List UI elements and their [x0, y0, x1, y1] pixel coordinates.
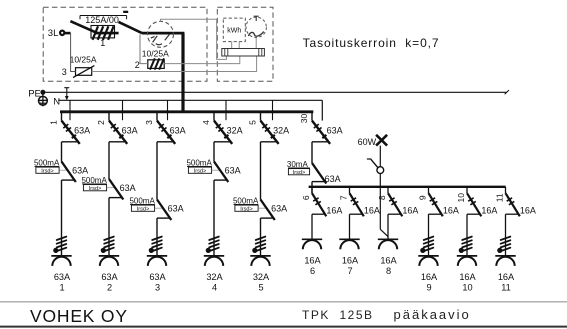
svg-text:8: 8	[386, 266, 391, 276]
wire Q8 output jog	[388, 213, 401, 215]
wire Q3 output jog	[157, 141, 174, 143]
feeder group 5: drop from bus	[260, 112, 262, 121]
RCD F4 Irsd box	[188, 167, 211, 173]
svg-text:5: 5	[247, 120, 257, 125]
switch-fuse Q30 63A	[312, 121, 330, 144]
switch-fuse Q5 32A	[261, 121, 279, 144]
svg-text:63A: 63A	[122, 126, 138, 136]
wire RCD 1 output jog	[62, 179, 75, 181]
wire group 2 down to outlet	[108, 198, 110, 256]
wire Q7 output jog	[350, 213, 363, 215]
svg-text:1: 1	[100, 38, 105, 48]
wire down to RCD 3	[156, 142, 158, 200]
group 7: drop from sub bus	[349, 187, 351, 193]
title block top rule	[0, 301, 567, 303]
feeder group 4: drop from bus	[213, 112, 215, 121]
wire down to RCD 4	[213, 142, 215, 162]
wire group 11 down	[505, 214, 507, 256]
wire main conductor to meter	[142, 32, 185, 35]
switch Q1 second blade	[119, 22, 142, 33]
title block bottom rule	[0, 326, 567, 328]
switch S1 one-pole	[377, 167, 384, 174]
PE junction dot	[41, 90, 45, 94]
svg-text:3L: 3L	[48, 28, 59, 39]
wire switch down crossing sub bus	[379, 174, 381, 230]
svg-text:16A: 16A	[520, 205, 536, 215]
junction dot group 9	[421, 248, 425, 252]
svg-text:Tasoituskerroin k=0,7: Tasoituskerroin k=0,7	[303, 36, 440, 50]
outgoing feeder symbol group 5	[250, 255, 270, 257]
junction dot group 4	[206, 248, 210, 252]
wire down to RCD 5	[260, 142, 262, 200]
RCD F1 Irsd box	[36, 167, 59, 173]
wire down to sub bus	[311, 182, 313, 194]
svg-text:63A: 63A	[271, 204, 287, 214]
P2 top tick	[255, 16, 257, 21]
switch-fuse Q3 63A	[157, 121, 175, 144]
lamp E1	[376, 135, 387, 146]
svg-text:16A: 16A	[459, 272, 476, 282]
svg-text:16A: 16A	[421, 272, 438, 282]
wire Q9 output jog	[429, 213, 442, 215]
RCD F3 Irsd box	[131, 205, 154, 211]
svg-text:16A: 16A	[443, 205, 459, 215]
wire N tap at x=70.0	[69, 100, 71, 120]
P2 wave	[248, 32, 263, 37]
wire Q6 output jog	[312, 213, 325, 215]
conductor count marks group 5	[256, 237, 266, 240]
switch-fuse Q4 32A	[214, 121, 232, 144]
wire Q30 output jog	[312, 141, 329, 143]
terminal block X1	[222, 49, 265, 57]
svg-text:9: 9	[418, 195, 428, 200]
svg-text:7: 7	[347, 266, 352, 276]
wire RCD 30 output jog	[312, 181, 325, 183]
enclosure: meter cubicle (dashed)	[217, 7, 273, 81]
svg-text:3: 3	[144, 120, 154, 125]
breaker Q10 16A	[467, 193, 481, 216]
svg-text:63A: 63A	[327, 126, 343, 136]
svg-text:Irsd>: Irsd>	[41, 168, 54, 174]
wire Q5 output jog	[261, 141, 278, 143]
svg-text:63A: 63A	[325, 174, 341, 184]
svg-text:2: 2	[107, 283, 112, 293]
wire main riser (phase bus feed)	[181, 33, 184, 113]
wire through fuse F1	[95, 32, 119, 35]
wire F2 to meter terminal block	[164, 56, 240, 64]
RCD F5 Irsd box	[235, 205, 258, 211]
receiver P2 ripple control (dashed circle)	[246, 17, 266, 37]
wire group 5 down to outlet	[260, 218, 262, 256]
svg-text:32A: 32A	[227, 126, 243, 136]
svg-text:63A: 63A	[72, 166, 88, 176]
wire tap to F2	[140, 34, 148, 63]
junction dot group 10	[459, 248, 463, 252]
wire RCD 3 output jog	[157, 217, 170, 219]
wire group 10 down	[466, 214, 468, 256]
RCD F30 Irsd box	[288, 169, 309, 175]
wire N tap at x=226.0	[225, 100, 227, 120]
wire incoming stub	[65, 32, 71, 35]
feeder group 2: drop from bus	[108, 112, 110, 121]
junction dot group 3	[149, 248, 153, 252]
wire group 3 down to outlet	[156, 218, 158, 256]
svg-text:32A: 32A	[273, 126, 289, 136]
svg-text:16A: 16A	[380, 256, 397, 266]
svg-text:pääkaavio: pääkaavio	[394, 307, 471, 322]
wire P2 to terminal block	[255, 37, 257, 48]
fuse F1 hatching	[93, 26, 99, 40]
wire F3 to meter terminal block	[92, 56, 257, 72]
svg-text:11: 11	[495, 193, 505, 202]
wire down to RCD 2	[108, 142, 110, 179]
svg-text:30: 30	[299, 114, 309, 124]
svg-text:kWh: kWh	[227, 28, 241, 35]
wire Q4 output jog	[214, 141, 231, 143]
label bracket 125A/00	[80, 15, 127, 17]
outgoing feeder symbol group 4	[204, 255, 224, 257]
feeder 30: bus end corner drop	[311, 112, 313, 121]
conductor count marks group 1	[57, 237, 67, 240]
svg-text:32A: 32A	[253, 272, 270, 282]
svg-text:3: 3	[62, 67, 67, 77]
current transformer T1 (dashed circle)	[148, 21, 174, 47]
enclosure: main switch cubicle (dashed)	[43, 7, 207, 81]
svg-text:32A: 32A	[206, 272, 223, 282]
wire group 6 down	[311, 214, 313, 239]
group 9: drop from sub bus	[428, 187, 430, 193]
junction dot group 11	[498, 248, 502, 252]
svg-text:Irsd>: Irsd>	[293, 170, 306, 176]
wire group 1 down to outlet	[61, 180, 63, 256]
outgoing feeder symbol group 3	[147, 255, 167, 257]
conductor count marks group 11	[501, 237, 511, 240]
wire down to RCD 30	[311, 142, 313, 163]
conductor count marks group 10	[462, 237, 472, 240]
wire N tap at x=272.5	[272, 100, 274, 120]
fuse F2 hatching	[150, 58, 155, 69]
sub distribution bus	[309, 186, 506, 188]
svg-text:63A: 63A	[225, 166, 241, 176]
breaker Q8 16A	[388, 193, 402, 216]
wire tap to F3	[71, 33, 76, 71]
wire group 7 down	[349, 214, 351, 239]
switch-fuse Q2 63A	[109, 121, 127, 144]
svg-text:VOHEK OY: VOHEK OY	[30, 306, 128, 326]
wire lamp to switch	[379, 146, 381, 167]
RCD F2 blade	[109, 179, 123, 200]
svg-text:10/25A: 10/25A	[142, 48, 169, 58]
svg-text:Irsd>: Irsd>	[137, 206, 150, 212]
RCD F2 Irsd box	[83, 185, 106, 191]
wire RCD 2 output jog	[109, 197, 122, 199]
wire RCD 4 output jog	[214, 179, 227, 181]
svg-text:10/25A: 10/25A	[70, 55, 97, 65]
earth electrode symbol	[42, 94, 44, 106]
junction dot group 2	[101, 248, 105, 252]
svg-text:N: N	[53, 97, 60, 108]
svg-text:63A: 63A	[74, 126, 90, 136]
junction dot group 5	[253, 248, 257, 252]
T1 inner marks	[153, 36, 158, 43]
junction dot group 1	[54, 248, 58, 252]
svg-text:2: 2	[96, 120, 106, 125]
conductor count marks group 2	[104, 237, 114, 240]
outgoing feeder symbol group 7	[339, 238, 359, 240]
outgoing feeder symbol group 10	[457, 255, 477, 257]
svg-text:125A/00: 125A/00	[85, 15, 119, 25]
svg-text:TPK 125B: TPK 125B	[302, 308, 374, 322]
conductor count marks group 4	[209, 237, 219, 240]
svg-text:63A: 63A	[168, 204, 184, 214]
RCD F30 blade	[312, 163, 326, 184]
meter P1 kWh (dashed box)	[223, 18, 245, 41]
switch Q1 main blade (left pole)	[70, 21, 97, 33]
wire N tap at x=122.5	[122, 100, 124, 120]
breaker Q6 16A	[312, 193, 326, 216]
svg-text:8: 8	[377, 195, 387, 200]
feeder group 3: drop from bus	[156, 112, 158, 121]
svg-text:5: 5	[258, 283, 263, 293]
N bus end drop	[321, 100, 323, 120]
outgoing feeder symbol group 1	[51, 255, 71, 257]
svg-text:16A: 16A	[326, 205, 342, 215]
svg-text:16A: 16A	[342, 256, 359, 266]
fuse F3 diagonal	[73, 66, 94, 78]
svg-text:16A: 16A	[402, 205, 418, 215]
wire group 8 down	[387, 214, 389, 239]
svg-text:Irsd>: Irsd>	[89, 186, 102, 192]
breaker Q9 16A	[429, 193, 443, 216]
svg-text:Irsd>: Irsd>	[240, 206, 253, 212]
svg-text:16A: 16A	[498, 272, 515, 282]
wire RCD 5 output jog	[261, 217, 274, 219]
svg-text:63A: 63A	[149, 272, 166, 282]
svg-text:1: 1	[59, 283, 64, 293]
fuse F1 125A body	[91, 26, 115, 38]
RCD F4 blade	[214, 162, 228, 183]
switch-fuse Q1 63A	[62, 121, 80, 144]
svg-text:11: 11	[501, 283, 511, 293]
svg-text:3: 3	[155, 283, 160, 293]
svg-text:4: 4	[212, 283, 217, 293]
svg-text:2: 2	[135, 60, 140, 70]
svg-text:6: 6	[301, 195, 311, 200]
svg-text:4: 4	[201, 120, 211, 125]
svg-text:1: 1	[48, 120, 58, 125]
wire Q1 output jog	[62, 141, 79, 143]
wire Q11 output jog	[506, 213, 519, 215]
breaker Q7 16A	[350, 193, 364, 216]
conductor count marks group 9	[424, 237, 434, 240]
wire kWh to terminal block a	[231, 42, 233, 49]
svg-text:16A: 16A	[481, 205, 497, 215]
svg-text:16A: 16A	[304, 256, 321, 266]
outgoing feeder symbol group 11	[495, 255, 515, 257]
svg-text:63A: 63A	[120, 183, 136, 193]
main phase bus	[60, 110, 313, 113]
svg-text:63A: 63A	[101, 272, 118, 282]
outgoing feeder symbol group 8	[378, 238, 398, 240]
RCD F1 blade	[62, 162, 76, 183]
svg-text:60W: 60W	[358, 137, 377, 147]
outgoing feeder symbol group 6	[302, 238, 322, 240]
group 6: drop from sub bus	[311, 187, 313, 193]
wire group 4 down to outlet	[213, 180, 215, 256]
svg-text:6: 6	[310, 266, 315, 276]
svg-text:16A: 16A	[364, 205, 380, 215]
fuse F2 10/25A body	[148, 60, 164, 69]
conductor count marks group 3	[152, 237, 162, 240]
wire Q2 output jog	[109, 141, 126, 143]
fuse F3 10/25A body	[76, 68, 92, 76]
svg-text:7: 7	[339, 195, 349, 200]
svg-text:63A: 63A	[54, 272, 71, 282]
group 10: drop from sub bus	[466, 187, 468, 193]
wire kWh to terminal block b	[238, 42, 240, 49]
svg-text:63A: 63A	[170, 126, 186, 136]
svg-text:10: 10	[462, 283, 472, 293]
RCD F5 blade	[261, 200, 275, 221]
wire group 9 down	[428, 214, 430, 256]
group 8: drop from sub bus	[387, 187, 389, 193]
wire N tap at x=167.5	[167, 100, 169, 120]
wire T1 secondary to terminal block	[161, 19, 227, 59]
svg-text:9: 9	[426, 283, 431, 293]
outgoing feeder symbol group 9	[418, 255, 438, 257]
RCD F3 blade	[157, 200, 171, 221]
svg-text:Irsd>: Irsd>	[194, 168, 207, 174]
PEN link arrow	[64, 87, 69, 89]
wire down to RCD 1	[61, 142, 63, 162]
feeder group 1: drop from bus	[61, 112, 63, 121]
svg-text:10: 10	[456, 193, 466, 203]
N bus	[58, 99, 322, 101]
breaker Q11 16A	[506, 193, 520, 216]
svg-text:30mA: 30mA	[287, 160, 309, 169]
wire jog to group 8	[380, 229, 388, 236]
wire Q10 output jog	[467, 213, 480, 215]
PE bus	[43, 91, 507, 93]
outgoing feeder symbol group 2	[99, 255, 119, 257]
contact mark	[123, 11, 128, 13]
group 11: drop from sub bus	[505, 187, 507, 193]
